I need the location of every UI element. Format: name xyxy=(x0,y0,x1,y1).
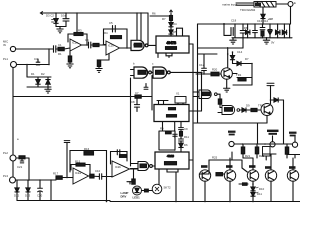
wire rail +V xyxy=(198,23,291,25)
svg-text:TDC/GM04: TDC/GM04 xyxy=(240,8,256,12)
diode column xyxy=(179,128,184,152)
diode D16 pair xyxy=(251,186,258,196)
diode D10 xyxy=(271,98,284,102)
gate IC3b xyxy=(134,67,151,78)
wire U2 bottom pins xyxy=(162,122,164,132)
wire U1 right pin xyxy=(189,43,193,45)
diode D4 xyxy=(46,77,50,87)
capacitor C10 xyxy=(117,150,120,155)
capacitor C16 xyxy=(224,24,235,38)
svg-text:C13 R12: C13 R12 xyxy=(257,19,268,23)
capacitor C9 xyxy=(99,174,101,180)
op-amp IC1a xyxy=(70,39,82,51)
wire Q1 emitter + ground xyxy=(224,79,230,92)
wire T1 right xyxy=(276,3,288,5)
box contact xyxy=(263,147,271,161)
svg-text:PL1: PL1 xyxy=(3,57,8,61)
capacitor C6 xyxy=(144,84,148,90)
diode D9 xyxy=(242,108,246,112)
resistor R9 xyxy=(76,163,85,166)
svg-text:C5: C5 xyxy=(109,21,113,25)
gate IC3d xyxy=(138,162,152,171)
gate IC3a xyxy=(131,40,148,50)
svg-text:D3 C2: D3 C2 xyxy=(46,14,54,18)
svg-text:D9: D9 xyxy=(246,104,250,108)
transistor Q2 xyxy=(261,104,273,116)
wire y158 xyxy=(16,157,29,159)
tiny value labels xyxy=(3,1,296,200)
wire join xyxy=(48,49,50,65)
wire rail 0V xyxy=(232,37,292,39)
capacitor C15 xyxy=(240,24,246,48)
node +9V arrow xyxy=(170,10,173,14)
svg-text:IC1b: IC1b xyxy=(108,44,114,48)
resistor R14 xyxy=(251,108,257,111)
svg-text:C14: C14 xyxy=(237,50,243,54)
crystal X1 xyxy=(175,97,186,104)
svg-text:R9: R9 xyxy=(160,127,164,131)
svg-text:D13: D13 xyxy=(25,194,31,198)
svg-text:0V: 0V xyxy=(271,41,275,45)
capacitor C11 xyxy=(202,54,207,74)
capacitor C8 xyxy=(173,134,177,136)
node supply arrow xyxy=(40,12,46,15)
ground mid xyxy=(263,38,269,44)
diode D7 xyxy=(230,52,234,64)
wire xyxy=(104,44,107,46)
resistor R6 + ground xyxy=(96,54,109,73)
ground xyxy=(57,27,63,33)
op-amp IC2a xyxy=(73,168,89,184)
transistor Q4 xyxy=(224,170,235,181)
resistor R4 + ground xyxy=(67,51,73,68)
resistor R10 xyxy=(84,152,94,155)
wire feedback xyxy=(68,34,87,45)
wire input2 xyxy=(17,64,50,66)
svg-text:TR2: TR2 xyxy=(258,104,264,108)
svg-text:R21: R21 xyxy=(245,154,251,158)
wire Q2 emitter xyxy=(266,116,268,124)
resistor R13 xyxy=(218,99,221,104)
gate IC4a xyxy=(199,90,217,99)
wire xyxy=(56,26,66,28)
svg-text:4066: 4066 xyxy=(167,154,174,158)
wire top bias xyxy=(198,53,217,55)
wire mid bus xyxy=(130,78,132,166)
wire output3 xyxy=(89,175,100,178)
op-amp IC1b xyxy=(106,41,120,55)
IC U3 xyxy=(155,152,189,169)
svg-text:D1: D1 xyxy=(31,72,35,76)
svg-text:R20: R20 xyxy=(212,68,218,72)
svg-text:R25: R25 xyxy=(212,156,218,160)
diode D14 xyxy=(276,24,280,38)
capacitor C17 xyxy=(253,24,258,38)
svg-text:IC2a: IC2a xyxy=(75,171,81,175)
resistor blob xyxy=(135,95,141,98)
wire T1 bottom xyxy=(262,7,264,14)
capacitor C7 xyxy=(134,98,139,111)
svg-text:+9V: +9V xyxy=(268,17,273,21)
resistor R19 xyxy=(285,144,288,158)
svg-text:R16: R16 xyxy=(84,147,90,151)
svg-text:IC2b: IC2b xyxy=(115,165,121,169)
svg-text:D2: D2 xyxy=(41,72,45,76)
svg-text:D10: D10 xyxy=(259,187,265,191)
svg-text:PL2: PL2 xyxy=(3,151,8,155)
svg-text:TR1: TR1 xyxy=(236,73,242,77)
svg-text:DRV: DRV xyxy=(121,195,127,199)
LED1 xyxy=(127,182,142,195)
svg-text:R22: R22 xyxy=(259,154,265,158)
IC U1 xyxy=(156,36,189,53)
diode D13 xyxy=(268,24,272,38)
wire to Q2 xyxy=(240,109,242,111)
capacitor C3 xyxy=(36,59,40,65)
resistor R17 xyxy=(241,144,244,158)
connector E xyxy=(288,2,293,7)
wire cluster xyxy=(239,183,248,185)
capacitor C19 xyxy=(38,180,43,201)
wire gate down xyxy=(217,94,220,99)
resistor R2 xyxy=(74,33,83,36)
transistor labels xyxy=(201,165,296,169)
svg-text:IN: IN xyxy=(3,43,6,47)
wire bus B xyxy=(197,24,199,123)
connector J1 xyxy=(229,141,234,146)
wire left rail xyxy=(12,68,14,156)
connector skt xyxy=(152,184,162,194)
IC U2 xyxy=(154,105,189,122)
svg-text:SKT2: SKT2 xyxy=(164,186,171,190)
svg-text:R6: R6 xyxy=(152,12,156,16)
transformer T1 xyxy=(254,2,276,8)
svg-text:C8: C8 xyxy=(131,100,135,104)
connector input2 xyxy=(11,62,17,68)
svg-text:R17: R17 xyxy=(53,172,59,176)
wire inner loop xyxy=(71,165,90,177)
svg-text:E: E xyxy=(294,1,296,5)
wire xyxy=(91,44,93,46)
svg-text:10u: 10u xyxy=(61,14,66,18)
wire xyxy=(50,180,52,201)
wire base network xyxy=(209,159,242,161)
capacitor C1 xyxy=(54,46,56,52)
svg-text:PL3: PL3 xyxy=(3,174,8,178)
wire U2 right xyxy=(189,110,202,112)
transistor Q6 xyxy=(265,170,276,181)
ground left xyxy=(230,38,236,44)
resistor R18 xyxy=(255,144,258,158)
svg-text:R11: R11 xyxy=(184,135,189,139)
diode D15 xyxy=(282,24,286,38)
svg-text:D4: D4 xyxy=(173,22,177,26)
wire U1 bottom pins xyxy=(157,53,159,58)
diode D11 xyxy=(261,14,265,24)
diode D18 xyxy=(26,180,30,201)
resistor R11 xyxy=(120,155,127,158)
connector MIC xyxy=(10,46,15,51)
wire output rail xyxy=(234,143,293,145)
resistor R5 xyxy=(111,36,122,39)
wire input3 xyxy=(16,179,57,181)
diode D6 xyxy=(169,27,173,36)
svg-text:R4: R4 xyxy=(104,31,108,35)
connector J3 xyxy=(292,142,297,147)
resistor R7 xyxy=(170,14,173,21)
wire output4 xyxy=(130,168,139,170)
wire x152 xyxy=(151,76,153,111)
svg-text:C4: C4 xyxy=(85,38,89,42)
wire xyxy=(76,13,78,34)
capacitor C5 xyxy=(109,26,119,33)
transistor Q1 xyxy=(221,68,232,79)
wire output2 xyxy=(120,47,132,49)
comp below xyxy=(20,159,24,163)
transistor Q5 xyxy=(247,170,258,181)
ground xyxy=(45,87,51,93)
wire bracket xyxy=(177,28,183,36)
svg-text:IC1a: IC1a xyxy=(72,41,78,45)
capacitor C12 xyxy=(267,83,274,103)
svg-text:R1: R1 xyxy=(58,52,62,56)
svg-text:D6: D6 xyxy=(184,143,188,147)
wire top supply rail xyxy=(41,12,148,14)
svg-text:D11: D11 xyxy=(257,192,262,196)
wire outer loop xyxy=(70,151,107,202)
svg-text:C1: C1 xyxy=(58,43,62,47)
wire mains pair xyxy=(236,2,254,4)
wire input1 xyxy=(16,48,54,50)
diode D8 xyxy=(233,61,247,65)
connector J2 xyxy=(270,142,275,147)
svg-text:R7: R7 xyxy=(162,17,166,21)
resistor R1 xyxy=(58,47,64,50)
svg-text:LED1: LED1 xyxy=(133,196,141,200)
wire limiter xyxy=(26,65,28,78)
svg-text:D7: D7 xyxy=(245,57,249,61)
svg-text:X1: X1 xyxy=(176,92,180,96)
wire collectors xyxy=(263,153,276,155)
svg-text:C10: C10 xyxy=(95,169,101,173)
transistor Q7 xyxy=(287,170,298,181)
wire outer loop xyxy=(104,29,128,48)
resistor R12 xyxy=(132,179,135,184)
svg-text:R15: R15 xyxy=(75,160,81,164)
wire lower loop xyxy=(159,131,175,150)
svg-text:C12: C12 xyxy=(199,63,205,67)
diode D17 xyxy=(15,180,19,201)
connector PL3 xyxy=(10,177,16,183)
wire output1 xyxy=(82,44,89,46)
wire xyxy=(56,48,58,50)
wire y96 xyxy=(13,96,152,98)
wire drops xyxy=(257,123,259,144)
capacitor C18 electrolytic xyxy=(260,24,265,38)
capacitor C2 xyxy=(63,13,69,27)
svg-text:R3: R3 xyxy=(78,29,82,33)
wire emitters xyxy=(204,181,206,201)
svg-text:D12: D12 xyxy=(14,194,20,198)
svg-text:C9: C9 xyxy=(184,127,188,131)
wire right bus xyxy=(283,100,285,144)
svg-text:C3: C3 xyxy=(34,57,38,61)
connector PL2 xyxy=(10,155,16,161)
op-amp IC2b xyxy=(112,161,130,177)
capacitor C4 xyxy=(89,42,91,48)
svg-text:C21: C21 xyxy=(17,165,23,169)
svg-text:C20: C20 xyxy=(37,194,43,198)
wire Q1 base xyxy=(196,73,221,75)
diode D3 pair xyxy=(52,13,59,27)
svg-text:D5: D5 xyxy=(173,30,177,34)
svg-text:C18: C18 xyxy=(231,19,237,23)
wire pins above U2 xyxy=(157,100,168,102)
labels output rail xyxy=(228,130,297,137)
wire U3 bottom xyxy=(167,169,178,172)
svg-text:4047B: 4047B xyxy=(167,41,177,45)
wire gates xyxy=(151,71,153,73)
wire bottom rail xyxy=(17,200,110,202)
resistor R8 label xyxy=(166,131,172,134)
svg-text:mains input: mains input xyxy=(222,3,238,7)
wire rail2 xyxy=(198,47,244,49)
wire xyxy=(289,24,291,38)
svg-text:C7: C7 xyxy=(135,91,139,95)
gate IC4b xyxy=(222,106,240,115)
diode D2 xyxy=(36,77,40,87)
wire x67 cap stub xyxy=(66,143,68,178)
wire bus A xyxy=(192,44,194,202)
gate IC3c xyxy=(153,67,170,78)
resistor R3 xyxy=(93,43,99,46)
diode D5 xyxy=(169,21,173,27)
diode D12 xyxy=(246,24,250,38)
wire Q1 right loop xyxy=(232,73,237,75)
transistor Q3 xyxy=(199,170,210,181)
svg-text:D8: D8 xyxy=(244,26,248,30)
wire loop xyxy=(111,152,128,165)
